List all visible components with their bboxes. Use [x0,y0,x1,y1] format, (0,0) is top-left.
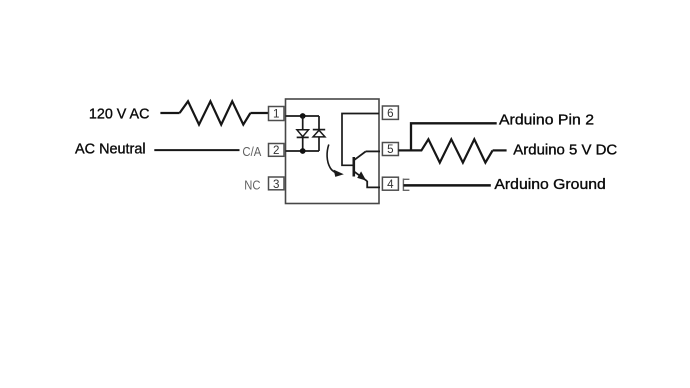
wire: right branch upper [318,116,320,130]
pin 4 [382,177,398,191]
wire: LED bottom rail to pin 2 [286,150,320,152]
svg-text:C/A: C/A [242,144,261,159]
wire: pin 6 to base [342,114,379,166]
svg-text:1: 1 [273,108,279,121]
wire W6: R2 to Arduino 5 V DC [493,149,507,151]
svg-text:Arduino Pin 2: Arduino Pin 2 [499,113,594,129]
wire W7: pin 4 to Arduino Ground [404,184,491,187]
node B (bottom junction dot) [300,148,306,154]
pin 2 [269,144,285,158]
transistor Q1 [354,151,367,181]
pin 5 [382,143,398,157]
pin 3 [269,177,285,191]
wire W2: R1 to pin 1 [250,112,268,114]
wire: left branch upper [302,116,304,130]
svg-text:NC: NC [244,177,260,192]
svg-text:2: 2 [273,144,279,157]
wire W3: AC Neutral to C/A [154,149,239,151]
svg-text:3: 3 [273,178,279,191]
pin 6 [382,106,398,120]
svg-text:5: 5 [387,143,393,156]
wire W5: junction up and right to Arduino Pin 2 [411,123,497,151]
wire W1: 120 V AC to R1 [160,112,179,114]
node A (top junction dot) [300,113,306,119]
wire W4: pin 5 to junction [398,149,411,151]
svg-text:Arduino Ground: Arduino Ground [494,177,605,193]
pin 1 [269,107,285,121]
wire: pin 1 to LED top rail [286,115,320,117]
pin label E (emitter) [403,179,409,192]
svg-text:6: 6 [387,107,393,120]
diode D1 (LED, cathode down) [297,130,309,138]
svg-text:AC Neutral: AC Neutral [75,142,146,158]
wire: right branch lower [318,137,320,151]
resistor R2 [411,139,493,162]
resistor R1 [180,101,251,124]
svg-text:4: 4 [387,178,394,191]
svg-text:120 V AC: 120 V AC [89,106,150,122]
optocoupler U1 package [286,99,380,204]
wire: left branch lower [302,137,304,151]
diode D2 (LED, cathode up, anti-parallel) [313,130,325,137]
svg-text:Arduino 5 V DC: Arduino 5 V DC [513,142,617,158]
wire: collector to pin 5 [366,150,380,152]
wire: emitter to pin 4 [367,181,380,187]
light arrow (LED to transistor) [327,145,344,177]
